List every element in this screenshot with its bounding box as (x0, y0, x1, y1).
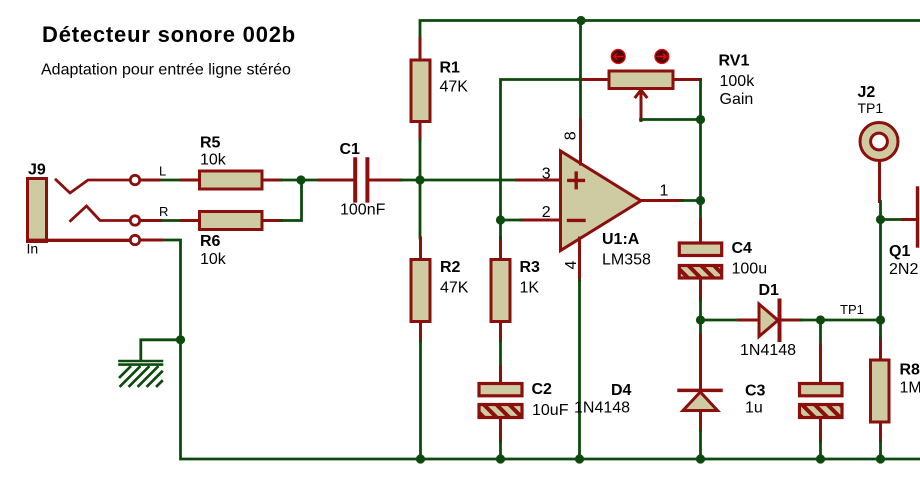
resistor R2 (411, 238, 469, 341)
wire: RV1 node to output node (699, 120, 702, 220)
node: RV1 junction (696, 115, 705, 124)
node: rail C3 (816, 454, 825, 463)
wire: RV1 wiper to node (641, 118, 701, 121)
ground (120, 335, 186, 386)
svg-text:R3: R3 (520, 259, 541, 276)
svg-text:C3: C3 (745, 383, 766, 400)
wire: L input (159, 179, 181, 182)
pin circle: sleeve (130, 235, 139, 244)
capacitor C1 (320, 141, 402, 219)
wire: R8 to rail (879, 441, 882, 459)
svg-text:R2: R2 (440, 259, 461, 276)
node: rail D4 (696, 454, 705, 463)
wire: pin4 to rail (578, 280, 581, 459)
svg-text:1M: 1M (900, 380, 920, 397)
svg-text:1N4148: 1N4148 (740, 342, 796, 359)
resistor R5 (181, 135, 282, 190)
wire: R3 top to node (499, 220, 502, 238)
wire: R2 bottom to rail (419, 341, 422, 459)
pin circle: L (130, 175, 139, 184)
op-amp U1 (517, 120, 683, 281)
svg-text:RV1: RV1 (719, 53, 750, 70)
transistor Q1 (889, 188, 918, 278)
node F: J2/Q1 base junction (876, 215, 885, 224)
svg-text:U1:A: U1:A (602, 231, 640, 248)
node E: TP1/R8 junction (876, 315, 885, 324)
node: rail R8 (876, 454, 885, 463)
node: rail C2 (496, 454, 505, 463)
wire: RV1 right terminal down (699, 80, 702, 120)
wire: C3 to rail (819, 441, 822, 459)
resistor R3 (491, 238, 540, 341)
wire: C1 to node B (401, 179, 420, 182)
svg-text:D1: D1 (759, 282, 780, 299)
svg-text:In: In (27, 241, 39, 257)
svg-text:1: 1 (660, 183, 669, 200)
wire: C4 to node C (699, 300, 702, 320)
svg-text:R5: R5 (200, 135, 221, 152)
pin: sleeve jack pin (139, 239, 162, 242)
wire: R input (161, 219, 182, 222)
svg-text:C1: C1 (340, 141, 361, 158)
wire: J2 to node F (879, 202, 882, 220)
svg-text:3: 3 (542, 166, 551, 183)
svg-text:LM358: LM358 (602, 252, 651, 269)
pin: R jack pin (139, 219, 161, 222)
node B: C1/R1/R2 junction (415, 175, 424, 184)
svg-text:R: R (159, 204, 168, 219)
svg-text:L: L (159, 164, 166, 179)
svg-text:2: 2 (542, 204, 551, 221)
node: V+ / pin8 junction (576, 16, 585, 25)
svg-text:10uF: 10uF (532, 402, 569, 419)
pin: L jack pin (139, 179, 159, 182)
wire: R6 out up to node A (282, 180, 302, 221)
wire: node D to node E (821, 319, 881, 322)
svg-text:1N4148: 1N4148 (574, 400, 630, 417)
svg-text:D4: D4 (611, 382, 632, 399)
node A: R5/R6 junction (296, 175, 305, 184)
wire: R1 bottom through node B to R2 (419, 140, 422, 238)
svg-text:4: 4 (563, 260, 580, 269)
svg-text:10k: 10k (200, 251, 227, 268)
svg-text:100k: 100k (720, 73, 756, 90)
svg-text:TP1: TP1 (858, 100, 884, 116)
capacitor C3 (745, 320, 842, 441)
node: rail pin4 (575, 454, 584, 463)
diode D1 (739, 282, 802, 359)
node: rail R2 (416, 454, 425, 463)
resistor R1 (411, 39, 468, 141)
svg-text:R6: R6 (200, 233, 221, 250)
capacitor C4 (679, 220, 767, 301)
resistor R8 (871, 320, 920, 441)
test point J2 (858, 84, 899, 202)
wire: pin8 column (579, 21, 582, 120)
wire: sleeve to ground column (162, 240, 920, 459)
wire: node F to Q1 base (881, 218, 904, 221)
wire: node F down to node E (879, 220, 882, 321)
wire: pin2 node (501, 219, 522, 222)
svg-text:8: 8 (563, 131, 580, 140)
potentiometer RV1 (583, 50, 755, 121)
node: pin2/R3/feedback junction (496, 215, 505, 224)
svg-text:100nF: 100nF (340, 202, 386, 219)
svg-text:C4: C4 (732, 240, 753, 257)
svg-text:C2: C2 (532, 381, 553, 398)
svg-text:Adaptation pour entrée ligne s: Adaptation pour entrée ligne stéréo (41, 62, 291, 79)
pin circle: R (130, 216, 139, 225)
node: output junction (696, 196, 705, 205)
svg-text:R8: R8 (900, 362, 920, 379)
svg-text:47K: 47K (440, 280, 469, 297)
wire: V+ top rail (420, 21, 920, 40)
svg-text:100u: 100u (732, 261, 768, 278)
svg-text:10k: 10k (200, 152, 227, 169)
wire: C2 to rail (499, 441, 502, 459)
svg-text:J9: J9 (28, 162, 46, 179)
wire: feedback column (501, 80, 584, 221)
resistor R6 (181, 212, 282, 269)
svg-text:TP1: TP1 (840, 302, 864, 317)
wire: R3 to C2 (499, 341, 502, 367)
wire: D1 cathode to node D (801, 319, 821, 322)
svg-text:R1: R1 (440, 60, 461, 77)
svg-text:2N2: 2N2 (889, 261, 918, 278)
svg-text:J2: J2 (858, 84, 876, 101)
svg-text:1u: 1u (745, 400, 763, 417)
svg-text:Q1: Q1 (889, 243, 910, 260)
wire: D4 to rail (699, 431, 702, 460)
svg-text:Gain: Gain (720, 91, 754, 108)
svg-text:Détecteur sonore 002b: Détecteur sonore 002b (42, 22, 296, 47)
wire: node B to pin3 (420, 179, 517, 182)
capacitor C2 (479, 367, 569, 441)
node D: D1/C3 junction (816, 315, 825, 324)
diode D4 (574, 320, 721, 431)
svg-text:1K: 1K (520, 280, 540, 297)
svg-text:47K: 47K (440, 79, 469, 96)
wire: pin1 to output node (682, 199, 701, 202)
wire: node C to D1 anode (701, 319, 739, 322)
connector J9 (27, 162, 131, 257)
wire: R5 out to node A (282, 179, 320, 182)
node C: C4/D1/D4 junction (696, 315, 705, 324)
